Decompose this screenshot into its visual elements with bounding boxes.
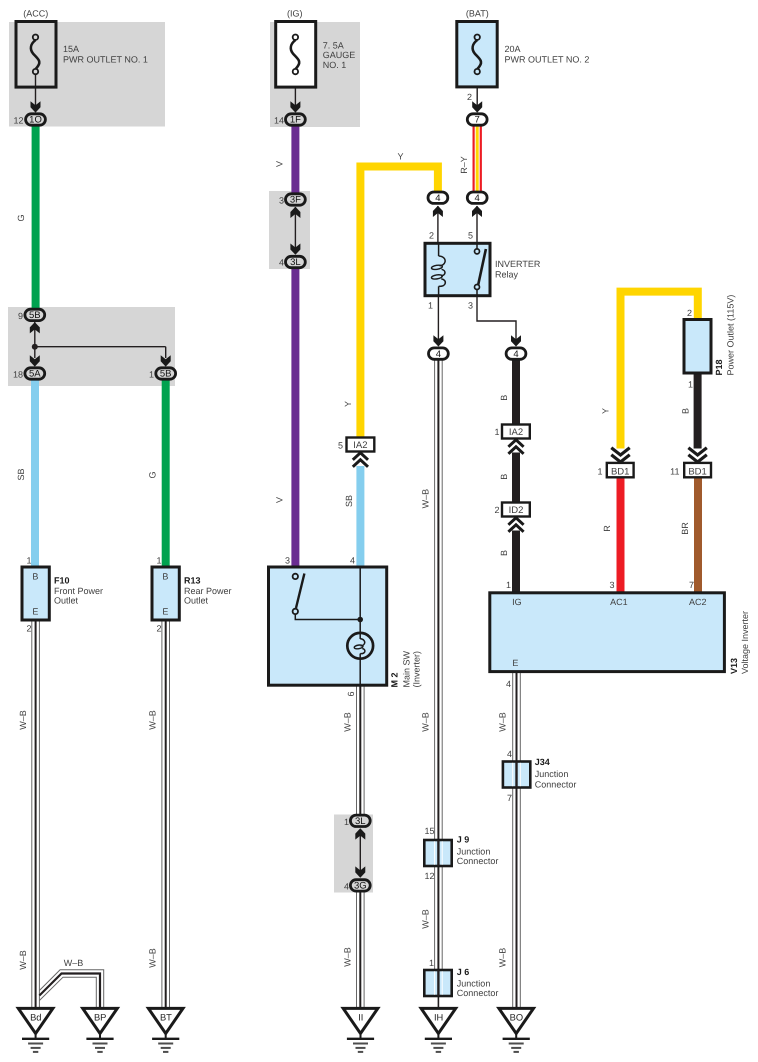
wire B from P18 pin 1 to BD1: [694, 373, 702, 449]
svg-text:4: 4: [513, 349, 518, 360]
svg-text:B: B: [499, 550, 509, 556]
svg-text:1: 1: [149, 370, 154, 380]
arrow up below 3L (lower box): [355, 828, 365, 839]
oval 4 (relay pin 3): [506, 348, 526, 359]
arrow up below 3F: [290, 207, 300, 218]
svg-text:5: 5: [468, 231, 473, 241]
svg-text:IA2: IA2: [509, 427, 523, 438]
relay pin 5 lead up to 4: [476, 206, 478, 243]
connector 5 IA2: [347, 438, 375, 452]
svg-text:E: E: [162, 606, 168, 616]
svg-text:B: B: [499, 474, 509, 480]
svg-text:Junction: Junction: [535, 769, 569, 779]
svg-text:20A: 20A: [505, 44, 521, 54]
svg-text:J34: J34: [535, 757, 550, 767]
thin lead ACC fuse to arrow: [35, 74, 37, 106]
wire V from 1F to 3F: [291, 125, 299, 194]
svg-text:AC2: AC2: [689, 597, 707, 607]
arrow up into 5B: [30, 322, 40, 333]
svg-text:4: 4: [435, 193, 440, 204]
junction connector J34: [503, 762, 530, 788]
svg-text:5B: 5B: [29, 310, 41, 321]
svg-text:5B: 5B: [160, 369, 172, 380]
wire B from IA2 chevron to ID2: [512, 453, 520, 504]
svg-text:9: 9: [18, 311, 23, 321]
svg-text:W–B: W–B: [343, 712, 353, 732]
svg-text:W–B: W–B: [148, 948, 158, 968]
svg-text:6: 6: [346, 691, 356, 696]
svg-text:2: 2: [494, 505, 499, 515]
svg-text:(IG): (IG): [287, 9, 303, 19]
connector block box 3F/3L: [269, 191, 310, 269]
svg-text:F10: F10: [54, 575, 70, 585]
svg-text:W–B: W–B: [498, 948, 508, 968]
svg-text:V13: V13: [729, 658, 739, 674]
oval 5B right: [156, 368, 176, 379]
junction connector J9: [424, 840, 451, 866]
wire W-B from J9 to J6: [435, 864, 443, 972]
svg-text:7: 7: [507, 793, 512, 803]
svg-text:AC1: AC1: [610, 597, 628, 607]
oval 3L: [286, 256, 306, 267]
svg-text:Outlet: Outlet: [184, 596, 209, 606]
relay pin 3 lead down over to 4: [477, 296, 516, 343]
wire SB from IA2 chevron to M2 pin 4: [356, 466, 364, 567]
svg-text:Y: Y: [397, 152, 403, 162]
wire W-B from F10 pin 2 to Bd ground: [32, 620, 40, 1008]
svg-text:Connector: Connector: [535, 780, 577, 790]
wire R from BD1 to V13 AC1: [617, 477, 625, 594]
svg-text:Y: Y: [343, 401, 353, 407]
svg-text:BP: BP: [94, 1012, 106, 1022]
junction block box 5B/5A: [8, 307, 175, 386]
arrow into 1F: [290, 101, 300, 112]
arrow down above 3G: [355, 866, 365, 877]
oval 4 (R-Y wire): [467, 192, 487, 203]
svg-text:IH: IH: [434, 1012, 443, 1022]
svg-text:Rear Power: Rear Power: [184, 586, 232, 596]
oval 5A: [25, 368, 45, 379]
component M2 Main SW (Inverter): [269, 567, 387, 685]
chevrons below 1 IA2: [508, 440, 523, 454]
oval 4 (relay pin 1): [429, 348, 449, 359]
svg-text:B: B: [499, 395, 509, 401]
svg-text:3: 3: [609, 580, 614, 590]
svg-text:W–B: W–B: [420, 489, 430, 509]
fuse 20A PWR OUTLET NO.2 (BAT): [457, 22, 497, 87]
svg-text:Voltage Inverter: Voltage Inverter: [740, 611, 750, 674]
svg-text:Y: Y: [601, 408, 611, 414]
svg-text:NO. 1: NO. 1: [323, 60, 347, 70]
chevrons down above left BD1: [611, 448, 629, 462]
svg-text:1: 1: [688, 379, 693, 389]
ground IH: [421, 1008, 456, 1052]
svg-text:2: 2: [467, 92, 472, 102]
arrow down into 5A: [30, 355, 40, 366]
oval 5B top: [25, 309, 45, 320]
svg-text:7: 7: [475, 115, 480, 126]
relay pin 1 lead down to 4: [437, 296, 439, 343]
svg-text:4: 4: [279, 258, 284, 268]
svg-text:3G: 3G: [354, 881, 367, 892]
wire SB from 5A to F10 pin 1: [31, 379, 39, 567]
connector 1 IA2: [502, 425, 530, 439]
svg-text:3L: 3L: [355, 816, 366, 827]
svg-text:5A: 5A: [29, 369, 41, 380]
svg-text:E: E: [512, 658, 518, 668]
wire R-Y from 7 to 4 (red with yellow stripe): [473, 125, 482, 192]
junction link 5B to 5A and 5B: [32, 322, 166, 358]
svg-text:Front Power: Front Power: [54, 586, 103, 596]
relay pin 2 lead up to 4: [437, 206, 439, 243]
M2 switch contact: [296, 574, 304, 609]
arrow down into 4 (relay pin 1): [433, 335, 443, 346]
wire from J6 to IH ground: [437, 994, 439, 1008]
svg-text:12: 12: [13, 115, 23, 125]
fuse 7.5A GAUGE NO.1 (IG): [276, 22, 316, 88]
svg-text:B: B: [162, 571, 168, 581]
wire W-B from J34 to BO ground: [513, 787, 521, 1008]
svg-text:2: 2: [26, 624, 31, 634]
ground II: [343, 1008, 378, 1052]
chevrons below 2 ID2: [508, 518, 523, 532]
svg-text:5: 5: [338, 440, 343, 450]
connector block box 3L/3G: [334, 815, 373, 893]
svg-text:V: V: [275, 161, 285, 167]
svg-text:Connector: Connector: [457, 988, 499, 998]
component P18 Power Outlet (115V): [684, 320, 711, 374]
svg-text:(ACC): (ACC): [23, 9, 48, 19]
svg-text:B: B: [681, 408, 691, 414]
wire BR from BD1 to V13 AC2: [694, 477, 702, 594]
thin lead IG fuse to arrow: [294, 74, 296, 106]
arrow down above 3L: [290, 244, 300, 255]
link 3F to 3L: [294, 207, 296, 254]
svg-text:V: V: [275, 497, 285, 503]
svg-text:15A: 15A: [63, 44, 79, 54]
svg-text:18: 18: [13, 370, 23, 380]
wire Y from P18 pin 2 over to BD1: [621, 292, 698, 449]
svg-text:1: 1: [429, 958, 434, 968]
svg-text:1: 1: [156, 555, 161, 565]
svg-text:G: G: [147, 471, 157, 478]
svg-text:15: 15: [424, 826, 434, 836]
wire W-B from M2 pin 6 to 3L: [357, 685, 365, 816]
connector 1 BD1: [607, 463, 634, 477]
svg-text:GAUGE: GAUGE: [323, 50, 356, 60]
svg-text:R13: R13: [184, 575, 201, 585]
svg-text:IG: IG: [512, 597, 522, 607]
svg-text:3L: 3L: [290, 257, 301, 268]
fuse 15A PWR OUTLET NO.1 (ACC): [16, 22, 56, 88]
svg-text:1: 1: [506, 580, 511, 590]
svg-text:W–B: W–B: [343, 947, 353, 967]
svg-text:Main SW: Main SW: [402, 650, 412, 687]
component INVERTER Relay: [425, 243, 490, 296]
svg-text:G: G: [16, 214, 26, 221]
svg-text:BT: BT: [160, 1012, 172, 1022]
svg-text:4: 4: [475, 193, 480, 204]
oval 3L lower: [350, 815, 370, 826]
svg-text:2: 2: [156, 624, 161, 634]
wire G from 5B to R13 pin 1: [162, 379, 170, 567]
wire B from 4 to IA2 (relay output): [512, 359, 520, 425]
junction connector J6: [424, 970, 451, 996]
svg-text:1: 1: [344, 817, 349, 827]
connector 11 BD1: [684, 463, 711, 477]
svg-text:Relay: Relay: [495, 270, 519, 280]
svg-text:M 2: M 2: [390, 672, 400, 687]
svg-text:11: 11: [670, 466, 679, 476]
svg-text:W–B: W–B: [420, 712, 430, 732]
svg-text:SB: SB: [16, 468, 26, 480]
oval 7: [467, 114, 487, 125]
svg-text:4: 4: [436, 349, 441, 360]
component R13 Rear Power Outlet: [152, 567, 179, 620]
wire Y from IA2 up over to connector 4: [360, 167, 438, 438]
svg-text:W–B: W–B: [498, 712, 508, 732]
svg-text:P18: P18: [714, 359, 724, 375]
svg-text:PWR OUTLET NO. 1: PWR OUTLET NO. 1: [63, 54, 148, 64]
svg-text:W–B: W–B: [420, 909, 430, 929]
M2 illumination lamp: [347, 633, 373, 659]
svg-text:4: 4: [507, 749, 512, 759]
oval 1O: [26, 114, 46, 125]
svg-text:12: 12: [424, 871, 434, 881]
svg-text:7: 7: [689, 580, 694, 590]
connector 2 ID2: [502, 503, 530, 517]
svg-text:W–B: W–B: [148, 710, 158, 730]
svg-text:W–B: W–B: [18, 710, 28, 730]
wire W-B from V13 E pin 4 to J34: [513, 671, 521, 763]
wire W-B from R13 pin 2 to BT ground: [162, 620, 170, 1008]
relay switch: [476, 243, 478, 248]
wire V from 3L to M2 pin 3: [291, 268, 299, 568]
svg-text:Junction: Junction: [457, 846, 491, 856]
svg-text:14: 14: [274, 115, 284, 125]
svg-text:Outlet: Outlet: [54, 596, 79, 606]
ground BO: [499, 1008, 534, 1052]
svg-text:R–Y: R–Y: [459, 156, 469, 174]
ground Bd: [18, 1008, 53, 1052]
svg-text:PWR OUTLET NO. 2: PWR OUTLET NO. 2: [505, 54, 590, 64]
oval 3G: [350, 880, 370, 891]
svg-text:Power Outlet (115V): Power Outlet (115V): [726, 295, 736, 376]
svg-text:BR: BR: [680, 522, 690, 535]
relay coil: [438, 243, 440, 256]
svg-text:BO: BO: [510, 1012, 523, 1022]
svg-text:J 9: J 9: [457, 835, 470, 845]
svg-text:(BAT): (BAT): [466, 9, 489, 19]
svg-text:1: 1: [494, 427, 499, 437]
ground BT: [148, 1008, 183, 1052]
wire W-B from 4 to J9: [435, 359, 443, 842]
svg-text:3F: 3F: [290, 195, 301, 206]
arrow up into 4 (left, from relay pin 2): [433, 206, 443, 217]
oval 1F: [286, 114, 306, 125]
svg-text:1: 1: [26, 555, 31, 565]
svg-text:2: 2: [687, 308, 692, 318]
svg-text:SB: SB: [344, 495, 354, 507]
arrow into 7: [472, 101, 482, 112]
component V13 Voltage Inverter: [490, 593, 725, 672]
svg-text:3: 3: [468, 300, 473, 310]
svg-text:3: 3: [285, 556, 290, 566]
svg-text:INVERTER: INVERTER: [495, 259, 541, 269]
svg-text:ID2: ID2: [509, 505, 524, 516]
ground BP: [83, 1008, 118, 1052]
svg-text:4: 4: [350, 556, 355, 566]
fuse block box (IG): [270, 22, 360, 127]
chevrons below 5 IA2: [353, 453, 368, 467]
wire G from 1O to 5B: [32, 125, 40, 309]
arrow into 1O: [31, 101, 41, 112]
arrow up into 4 (right, from relay pin 5): [472, 206, 482, 217]
svg-text:1O: 1O: [29, 115, 42, 126]
svg-text:J 6: J 6: [457, 967, 470, 977]
component F10 Front Power Outlet: [22, 567, 49, 620]
svg-text:(Inverter): (Inverter): [411, 651, 421, 688]
M2 internal wiring: [295, 614, 360, 619]
svg-text:II: II: [358, 1012, 363, 1022]
svg-text:BD1: BD1: [611, 466, 629, 477]
wire W-B branch to BP ground: [39, 970, 103, 1008]
svg-text:E: E: [32, 606, 38, 616]
svg-text:1: 1: [428, 300, 433, 310]
oval 4 (yellow wire): [428, 192, 448, 203]
wire B from ID2 chevron to V13 pin 1: [512, 531, 520, 594]
svg-text:Bd: Bd: [30, 1012, 41, 1022]
svg-text:4: 4: [506, 679, 511, 689]
fuse block box (ACC): [9, 22, 165, 127]
link 3L to 3G: [359, 829, 361, 877]
svg-text:W–B: W–B: [18, 950, 28, 970]
svg-text:3: 3: [279, 196, 284, 206]
svg-text:Connector: Connector: [457, 856, 499, 866]
oval 3F: [286, 194, 306, 205]
arrow down into right 5B: [161, 355, 171, 366]
svg-text:IA2: IA2: [353, 440, 367, 451]
svg-text:BD1: BD1: [688, 466, 706, 477]
arrow down into 4 (relay pin 3): [511, 335, 521, 346]
chevrons down above right BD1: [688, 448, 706, 462]
wire W-B from 3G to II ground: [357, 891, 365, 1008]
svg-text:1: 1: [597, 466, 602, 476]
svg-text:B: B: [32, 571, 38, 581]
svg-text:W–B: W–B: [64, 958, 84, 968]
thin lead BAT fuse to arrow: [476, 74, 478, 106]
svg-text:4: 4: [344, 881, 349, 891]
svg-text:1F: 1F: [290, 115, 301, 126]
svg-text:2: 2: [429, 231, 434, 241]
svg-text:R: R: [602, 525, 612, 532]
